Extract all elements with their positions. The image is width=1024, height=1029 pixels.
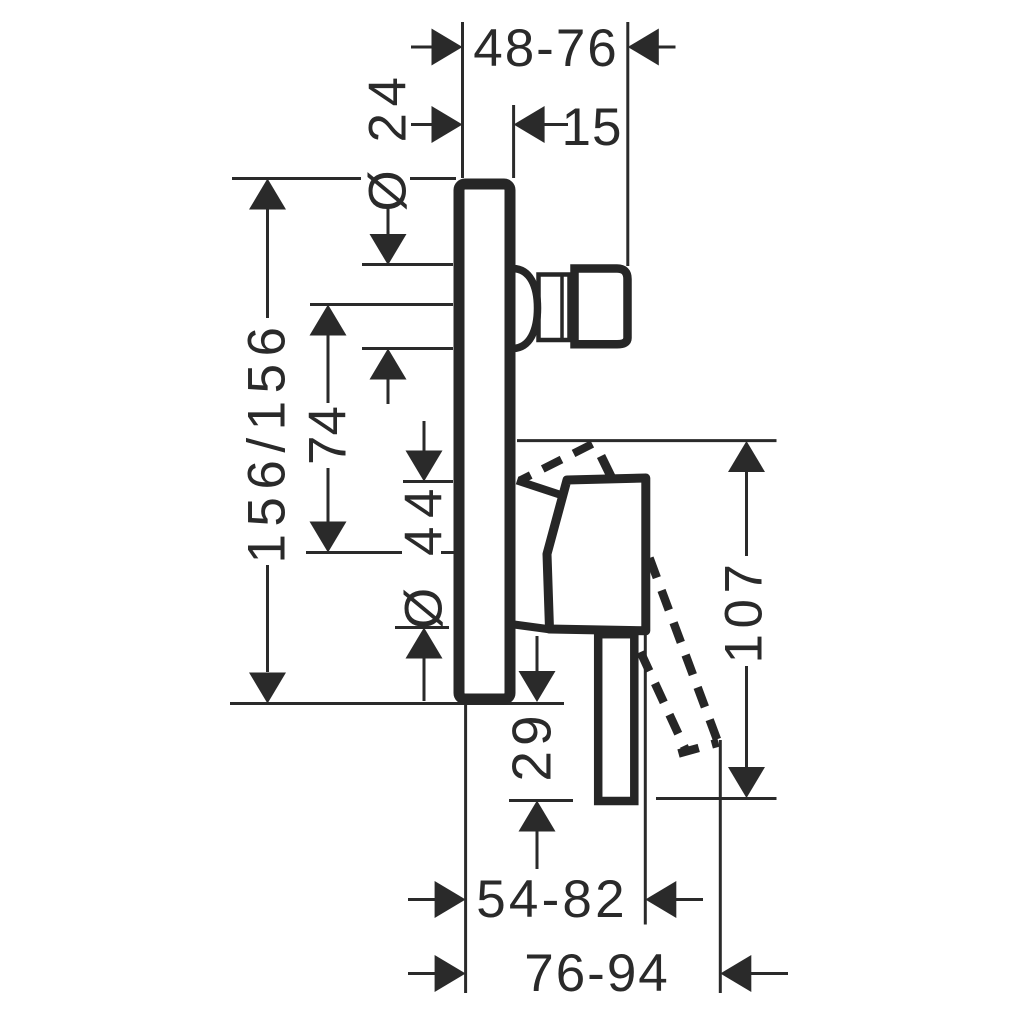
- svg-text:Ø 24: Ø 24: [359, 71, 418, 212]
- dim line O24 upper: [387, 207, 390, 237]
- ext line 48-76 right: [626, 22, 629, 266]
- arrow 54-82 right: [645, 881, 676, 918]
- svg-text:76-94: 76-94: [524, 944, 670, 1003]
- arrow 76-94 left: [435, 955, 466, 992]
- dim line O44 lower tail: [423, 659, 426, 702]
- ext line 156 bottom / plate bottom: [230, 702, 564, 705]
- arrow 48-76 right: [628, 29, 659, 66]
- tail 15 left: [411, 123, 433, 126]
- arrow 74 down: [310, 522, 347, 553]
- dim line 74: [327, 335, 330, 403]
- dim line 29 upper tail: [536, 636, 539, 672]
- spout bump arc: [513, 269, 538, 349]
- dashed lever end cap: [679, 743, 719, 754]
- tail 48-76 right: [657, 46, 676, 49]
- ext line rod bottom left: [509, 799, 573, 802]
- dim line O24 lower tail: [387, 379, 390, 404]
- dim line O44 upper tail: [423, 421, 426, 451]
- dim line 156: [266, 209, 269, 318]
- arrow O44 up: [406, 628, 443, 659]
- arrow 15 left: [432, 106, 463, 143]
- ext line O24 bottom: [362, 347, 453, 350]
- ext line O24 top: [362, 263, 453, 266]
- lever stub: [601, 456, 612, 478]
- dim line 29 lower tail: [536, 831, 539, 869]
- dashed lever edge lower: [641, 652, 687, 751]
- arrow 156 up: [249, 179, 286, 210]
- handle rod: [598, 634, 634, 801]
- ext line O44 top: [403, 480, 453, 483]
- tail 54-82 right: [676, 898, 703, 901]
- arrow 29 up: [519, 801, 556, 832]
- arrow O24 up: [370, 349, 407, 380]
- arrow 107 down: [728, 767, 765, 798]
- svg-text:29: 29: [501, 710, 563, 781]
- svg-text:Ø 44: Ø 44: [395, 480, 454, 629]
- arrow 156 down: [249, 673, 286, 704]
- arrow O24 down: [370, 234, 407, 265]
- svg-text:156/156: 156/156: [238, 319, 297, 563]
- ext line 74 bottom: [306, 551, 402, 554]
- arrow 74 up: [310, 305, 347, 336]
- fixture drawing: [459, 184, 719, 801]
- svg-text:74: 74: [299, 406, 358, 465]
- tail 48-76 left: [411, 46, 433, 49]
- ext line 54-82 left / 76-94 left: [464, 705, 467, 993]
- arrow O44 down: [406, 451, 443, 482]
- ext line 15: [512, 105, 515, 178]
- wall plate: [459, 184, 510, 699]
- svg-text:15: 15: [562, 98, 623, 157]
- spout cylinder: [539, 275, 570, 341]
- arrow 107 up: [728, 441, 765, 472]
- tail 54-82 left: [408, 898, 435, 901]
- ext line 76-94 right: [719, 740, 722, 993]
- tail 76-94 right: [751, 972, 788, 975]
- neck top: [517, 481, 561, 496]
- svg-text:54-82: 54-82: [476, 870, 628, 929]
- dim line 107: [745, 471, 748, 556]
- arrow 76-94 right: [720, 955, 751, 992]
- dashed lever up position: [520, 441, 599, 481]
- tail 15 right: [543, 123, 568, 126]
- svg-text:107: 107: [715, 559, 774, 664]
- arrow 54-82 left: [435, 881, 466, 918]
- ext line 74 top: [310, 303, 453, 306]
- tail 76-94 left: [408, 972, 435, 975]
- arrow 15 right: [514, 106, 545, 143]
- arrow 48-76 left: [432, 29, 463, 66]
- ext line O44 bottom: [395, 626, 449, 629]
- ext line 156 top: [232, 177, 361, 180]
- ext line 48-76 left: [461, 22, 464, 178]
- spout block: [575, 269, 628, 345]
- handle hub: [547, 478, 646, 631]
- ext line 107 top: [517, 439, 777, 442]
- neck bottom: [514, 625, 551, 630]
- dashed lever edge upper: [650, 558, 718, 740]
- svg-text:48-76: 48-76: [473, 19, 619, 78]
- ext line rod bottom right / 107 bottom: [656, 797, 777, 800]
- ext line 54-82 right: [644, 634, 647, 925]
- arrow 29 down: [519, 671, 556, 702]
- spout ring: [560, 274, 564, 341]
